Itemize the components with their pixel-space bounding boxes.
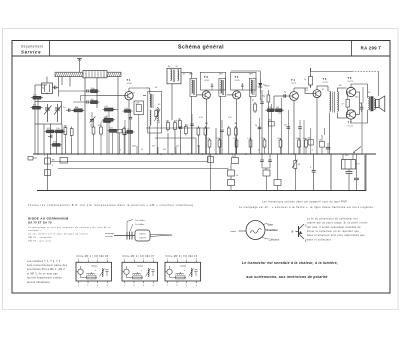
- wire T 3 base: [227, 94, 233, 96]
- bus junction dots: [37, 153, 318, 155]
- resistor R34: [308, 138, 314, 145]
- wire osc down: [171, 84, 173, 120]
- capacitor C8: [282, 94, 285, 97]
- svg-text:DIODE AU GERMANIUM: DIODE AU GERMANIUM: [28, 217, 69, 221]
- svg-text:1k: 1k: [236, 175, 238, 177]
- svg-text:8,2k: 8,2k: [268, 107, 272, 109]
- bias box T1: [134, 101, 144, 115]
- svg-text:T 1: T 1: [127, 78, 131, 82]
- label jack: [52, 160, 55, 162]
- label T5: [323, 77, 329, 84]
- svg-text:7: 7: [186, 259, 187, 261]
- svg-text:NTC: NTC: [355, 97, 360, 99]
- svg-text:2n2: 2n2: [277, 138, 280, 140]
- ferrite rod antenna L1: [55, 72, 121, 76]
- transistor note paragraph: [307, 217, 368, 241]
- wire jog 2: [58, 169, 228, 171]
- wire bar drop 5: [117, 77, 119, 154]
- label T4: [291, 78, 297, 85]
- svg-text:marquage: marquage: [105, 232, 115, 235]
- diode label marquage: [105, 232, 115, 238]
- wire bus right end: [330, 154, 332, 191]
- label 90p: [0, 0, 1, 1]
- svg-text:100n: 100n: [132, 146, 136, 148]
- caution italic line 1: [242, 261, 338, 265]
- antenna mast: [77, 59, 82, 73]
- svg-text:repéré par un point rouge. Si: repéré par un point rouge. Si ce point n…: [307, 222, 368, 225]
- wire T1 collector: [129, 88, 146, 92]
- wire stubs above bus: [210, 149, 307, 154]
- wire mid h: [81, 96, 98, 102]
- svg-text:5k: 5k: [298, 164, 300, 166]
- svg-text:1,5k: 1,5k: [56, 128, 60, 130]
- wire tune 6: [65, 137, 67, 154]
- svg-text:fournis séparément comme: fournis séparément comme: [27, 277, 62, 280]
- wire diode: [231, 71, 262, 100]
- svg-text:T 2: T 2: [204, 75, 208, 79]
- svg-text:T 6: T 6: [348, 76, 352, 80]
- resistor R12: [174, 121, 177, 132]
- capacitor C4: [129, 112, 132, 154]
- wire T 2 base: [196, 94, 202, 96]
- svg-text:1k: 1k: [127, 129, 129, 131]
- wire T1 col right: [143, 95, 146, 97]
- svg-text:Base: Base: [268, 223, 274, 226]
- svg-text:OC45: OC45: [204, 80, 210, 82]
- wire det col b: [270, 104, 272, 154]
- svg-text:OC45: OC45: [234, 80, 240, 82]
- value label grp L: [33, 88, 78, 144]
- svg-text:3: 3: [97, 285, 98, 287]
- header divider right: [351, 41, 353, 57]
- svg-text:ensembles filtres MF 1, MF: ensembles filtres MF 1, MF 2: [27, 268, 65, 271]
- wire T4 collector top: [294, 88, 308, 92]
- wire det col c: [278, 98, 282, 154]
- svg-text:n1: n1: [133, 93, 135, 95]
- negative supply bus: [37, 190, 366, 192]
- transistor case drawing: [231, 221, 266, 240]
- capacitor C23: [360, 103, 364, 112]
- svg-text:82: 82: [105, 117, 107, 119]
- svg-text:o: o: [95, 270, 96, 272]
- transistor T1: [125, 92, 133, 100]
- variable capacitor CV1: [44, 104, 52, 122]
- diode package lead right: [150, 235, 172, 237]
- capacitor C19: [326, 143, 331, 154]
- label r1516: [268, 107, 279, 109]
- wire T1 emitter: [128, 100, 130, 154]
- svg-text:2,2k: 2,2k: [125, 108, 129, 110]
- wire top left: [35, 84, 47, 86]
- header divider left: [49, 41, 51, 57]
- resistor R1: [31, 96, 43, 99]
- resistor R7: [64, 126, 67, 137]
- filter module MF2 box: [122, 255, 158, 287]
- wire ant col 1: [84, 78, 86, 154]
- svg-text:n15: n15: [105, 106, 108, 108]
- svg-text:Les transistors utilisés dans: Les transistors utilisés dans cet appare…: [262, 200, 348, 203]
- electrolytic C11: [310, 154, 316, 191]
- label lower: [208, 155, 238, 177]
- svg-text:3: 3: [143, 285, 144, 287]
- wire MF1 bottom: [149, 126, 151, 154]
- svg-text:8: 8: [196, 259, 197, 261]
- wire MF1 top: [146, 88, 150, 94]
- svg-text:B: B: [292, 230, 294, 234]
- resistor R27: [89, 99, 100, 104]
- resistor R22: [228, 170, 235, 176]
- svg-text:T 3: T 3: [234, 75, 238, 79]
- capacitor C3: [48, 135, 52, 138]
- lower cluster wires: [107, 115, 124, 154]
- capacitor C6: [220, 120, 223, 154]
- volume pot P1: [292, 154, 298, 191]
- wire det col e: [303, 120, 305, 154]
- svg-text:Département: Département: [21, 45, 43, 49]
- MF narrow box 3: [249, 78, 256, 96]
- svg-text:base et émetteur sont plus rap: base et émetteur sont plus rapprochés qu…: [307, 234, 365, 237]
- svg-text:Le transistor est sensible: Le transistor est sensible à la chaleur,…: [242, 261, 338, 265]
- lower cluster resistor Ra: [102, 118, 113, 123]
- svg-text:pièces détachées.: pièces détachées.: [27, 281, 51, 284]
- wire IF3 cap stub: [241, 83, 244, 90]
- scatter labels 1: [133, 66, 253, 106]
- label T 2: [204, 75, 210, 82]
- wire T1 base: [97, 95, 125, 97]
- svg-text:2: 2: [133, 285, 134, 287]
- resistor R11: [167, 121, 170, 132]
- wire tune 2: [43, 124, 45, 154]
- wire IF3 down: [250, 96, 252, 154]
- svg-text:aux surtensions, aux invers: aux surtensions, aux inversions de polar…: [246, 275, 327, 279]
- svg-text:Filtre MF 2 | FO 002 07: Filtre MF 2 | FO 002 07: [123, 255, 155, 258]
- resistor R32: [185, 125, 188, 136]
- svg-text:2k: 2k: [141, 149, 143, 151]
- svg-text:22n: 22n: [176, 146, 179, 148]
- capacitor C14: [87, 89, 88, 92]
- svg-text:S9: S9: [368, 92, 370, 94]
- IF transformer winding 2: [220, 80, 223, 95]
- svg-text:RA 299 T: RA 299 T: [361, 45, 382, 50]
- header text Service: [21, 49, 41, 54]
- lower cluster resistor Rd: [123, 127, 126, 137]
- diode note l1: [28, 226, 111, 229]
- svg-text:8: 8: [107, 259, 108, 261]
- svg-text:2,2k: 2,2k: [33, 95, 37, 97]
- svg-text:OA 70 : vermillon: OA 70 : vermillon: [28, 236, 53, 239]
- resistor R28: [73, 107, 85, 112]
- filter module MF1 box: [76, 255, 112, 287]
- AGC wire: [146, 127, 210, 129]
- label above-bus values: [90, 125, 307, 140]
- wire if link: [215, 128, 217, 154]
- lower cluster resistor Re: [125, 129, 135, 134]
- resistor R13: [254, 102, 257, 113]
- capacitor C5: [179, 127, 182, 128]
- svg-text:470: 470: [98, 125, 101, 127]
- diode note l5: [28, 239, 51, 242]
- wire tune 3: [50, 124, 52, 154]
- wire under T 2: [198, 137, 205, 154]
- svg-text:33k: 33k: [205, 123, 208, 125]
- svg-text:1: 1: [167, 285, 168, 287]
- wire vol in: [210, 154, 212, 191]
- capacitor C9: [260, 154, 263, 168]
- wire clu h2: [73, 101, 87, 103]
- resistor group above bus: [208, 138, 307, 149]
- svg-text:1: 1: [124, 285, 125, 287]
- svg-text:2k2: 2k2: [278, 113, 281, 115]
- wire T5 base: [305, 88, 313, 94]
- capacitor C21: [284, 125, 290, 129]
- wire T 2 emitter: [205, 99, 207, 154]
- diode package body: [135, 230, 150, 241]
- wire clu h1: [59, 90, 87, 92]
- output transformer: [368, 97, 375, 112]
- diode callout 1er chiffre: [127, 219, 145, 231]
- svg-text:tait pas, il serait cependant: tait pas, il serait cependant possible d…: [307, 226, 361, 229]
- svg-text:32: 32: [322, 89, 324, 91]
- resistor under T 2 b: [204, 126, 207, 137]
- resistor R10: [123, 108, 133, 113]
- header separator line: [12, 55, 390, 57]
- svg-text:47: 47: [252, 100, 254, 102]
- wire T6T7 emitters: [356, 92, 362, 115]
- wire r2930: [109, 110, 118, 155]
- svg-text:Service: Service: [21, 49, 41, 54]
- wire bar drop 3: [61, 77, 63, 85]
- lower cluster resistor Rb: [108, 128, 119, 133]
- capacitor C10: [268, 154, 271, 168]
- svg-text:métal: métal: [231, 230, 237, 233]
- wire tune left boundary: [34, 85, 36, 154]
- diode package bands: [127, 232, 132, 240]
- svg-text:4: 4: [196, 285, 197, 287]
- svg-text:Filtre MF 3 | FO 002 10: Filtre MF 3 | FO 002 10: [166, 255, 198, 258]
- svg-text:470: 470: [152, 146, 155, 148]
- wire IF2 cap stub: [211, 83, 214, 90]
- title Schema general: [178, 45, 224, 51]
- MF1 filter winding: [150, 94, 153, 125]
- svg-text:S7: S7: [183, 74, 185, 76]
- svg-text:c: c: [214, 150, 215, 152]
- svg-text:Schéma général: Schéma général: [178, 45, 224, 51]
- svg-text:cathode: cathode: [105, 235, 113, 238]
- resistor R21: [232, 158, 239, 164]
- resistor R8: [70, 127, 73, 138]
- switch S1 on-off: [353, 147, 361, 154]
- resistor group left col: [92, 125, 102, 136]
- MF narrow box 2: [219, 78, 226, 96]
- wire jog 1: [51, 157, 209, 162]
- svg-text:cathode +.: cathode +.: [28, 229, 43, 232]
- resistor R31: [179, 119, 182, 130]
- svg-text:T 5: T 5: [323, 77, 327, 81]
- capacitor C2: [66, 109, 73, 112]
- resistor R18 bias: [342, 100, 350, 108]
- svg-text:Le 1er chiffre est le plus élo: Le 1er chiffre est le plus éloigné du ce…: [28, 233, 89, 236]
- wire mf2in: [181, 72, 192, 154]
- svg-text:47n: 47n: [233, 138, 236, 140]
- switch section box b: [45, 170, 51, 176]
- svg-text:Toutes les commutations B.P. o: Toutes les commutations B.P. ont été rep…: [28, 204, 195, 207]
- resistor R3: [72, 109, 84, 112]
- svg-text:OC74: OC74: [348, 81, 354, 83]
- svg-text:6,8k: 6,8k: [296, 138, 300, 140]
- scatter labels 2: [199, 85, 370, 125]
- svg-text:Filtre MF 1 | FO 002 05: Filtre MF 1 | FO 002 05: [77, 255, 109, 258]
- svg-text:base et collecteur.: base et collecteur.: [307, 238, 332, 241]
- resistor R14: [267, 93, 270, 104]
- svg-text:b: b: [120, 150, 121, 152]
- svg-text:27k: 27k: [75, 107, 78, 109]
- svg-text:120p: 120p: [91, 88, 95, 90]
- svg-text:4: 4: [107, 285, 108, 287]
- svg-text:470: 470: [185, 125, 188, 127]
- label S4: [263, 85, 266, 87]
- wire bias: [348, 92, 362, 154]
- svg-text:3: 3: [186, 285, 187, 287]
- svg-text:10k: 10k: [268, 120, 271, 122]
- wire under T 3: [229, 137, 236, 154]
- wire c910: [262, 168, 270, 170]
- resistor R26: [89, 88, 100, 93]
- transistor symbol BCE: [292, 223, 307, 242]
- IF transformer winding 3: [251, 80, 254, 95]
- resistor R33: [268, 120, 274, 126]
- svg-text:4,7k: 4,7k: [199, 117, 203, 119]
- capacitor C7: [260, 90, 263, 154]
- svg-text:56: 56: [319, 140, 321, 142]
- svg-text:situer le collecteur où se rep: situer le collecteur où se repérant que: [307, 230, 359, 233]
- capacitor C22: [298, 120, 302, 154]
- resistor R20: [208, 157, 214, 163]
- svg-text:2e chiffre: 2e chiffre: [135, 223, 145, 226]
- label T7: [348, 120, 354, 127]
- wire bar drop 1: [58, 77, 60, 97]
- diode note l3: [28, 233, 89, 236]
- svg-text:OA 79 : gris-vert: OA 79 : gris-vert: [28, 239, 51, 242]
- transistor case callouts: [262, 223, 279, 241]
- transistor T4: [290, 92, 299, 101]
- resistor R16: [274, 109, 285, 112]
- resistor R15: [266, 109, 277, 112]
- resistor R35: [319, 140, 325, 147]
- svg-text:1k: 1k: [178, 119, 180, 121]
- svg-text:Collecteur: Collecteur: [269, 239, 280, 242]
- svg-text:OC44: OC44: [127, 83, 133, 85]
- svg-text:e: e: [312, 150, 313, 152]
- svg-text:82k: 82k: [33, 105, 36, 107]
- transistor T 2: [202, 91, 210, 99]
- svg-text:5: 5: [78, 259, 79, 261]
- resistor R17: [304, 75, 313, 88]
- svg-text:OA 70 ET OA 79: OA 70 ET OA 79: [28, 221, 52, 225]
- wire IF2 down: [219, 96, 221, 154]
- svg-text:MF2: MF2: [219, 74, 223, 76]
- svg-text:Le marquage est dit : « émette: Le marquage est dit : « émetteur à la fl…: [239, 206, 374, 209]
- diode note l4: [28, 236, 53, 239]
- svg-text:3n9: 3n9: [91, 99, 94, 101]
- doc number RA 299 T: [361, 45, 382, 50]
- svg-text:1,2k: 1,2k: [247, 138, 251, 140]
- label T6: [348, 76, 354, 83]
- svg-text:5,6k: 5,6k: [136, 103, 140, 105]
- svg-text:4: 4: [153, 285, 154, 287]
- svg-text:0,4: 0,4: [305, 90, 308, 92]
- trimmer capacitor C1: [52, 86, 59, 89]
- wire bar drop 2: [69, 77, 71, 87]
- wire T5 collector: [317, 86, 328, 92]
- label vol: [298, 164, 300, 166]
- wire ant col 2: [96, 78, 98, 108]
- svg-text:15k: 15k: [276, 107, 279, 109]
- svg-text:10n: 10n: [284, 125, 287, 127]
- resistor R19: [60, 158, 68, 164]
- resistor R2: [31, 106, 43, 109]
- wire fb v: [362, 87, 364, 103]
- svg-text:6: 6: [134, 259, 135, 261]
- svg-text:OA 79: OA 79: [139, 237, 146, 240]
- wire det col a: [259, 118, 261, 154]
- wire det col f: [310, 128, 312, 154]
- svg-text:100: 100: [216, 138, 219, 140]
- svg-text:680: 680: [308, 138, 311, 140]
- resistor under T 3 a: [227, 126, 230, 137]
- note PNP line 2: [239, 206, 374, 209]
- diode package lead left: [114, 235, 135, 237]
- svg-text:T 4: T 4: [291, 78, 295, 82]
- svg-text:S3: S3: [158, 104, 160, 106]
- wire tune 5: [61, 124, 63, 154]
- wire T 3 emitter: [236, 99, 238, 154]
- battery B1 9V: [342, 160, 361, 170]
- heading OA70: [28, 221, 52, 225]
- wire jack v: [47, 154, 49, 191]
- svg-text:MF3: MF3: [249, 74, 253, 76]
- svg-text:6k8: 6k8: [197, 146, 200, 148]
- trimmer capacitor C16: [90, 112, 96, 128]
- capacitor C15: [87, 100, 88, 103]
- note switches line: [28, 204, 195, 207]
- svg-text:50: 50: [232, 156, 234, 158]
- svg-text:Les modules T 1, T 2, T 3: Les modules T 1, T 2, T 3: [27, 261, 61, 263]
- MF1 module box: [148, 92, 162, 134]
- IF module box 3: [231, 72, 256, 90]
- svg-text:47: 47: [342, 104, 344, 106]
- svg-text:S8: S8: [339, 85, 341, 87]
- earphone jack terminal: [28, 157, 37, 161]
- border frame: [12, 41, 390, 294]
- svg-text:18k: 18k: [234, 123, 237, 125]
- wire osc grid: [168, 130, 181, 155]
- svg-text:8,2k: 8,2k: [110, 128, 114, 130]
- svg-text:S4: S4: [168, 66, 170, 68]
- scatter labels 3: [44, 150, 348, 168]
- resistor R23: [228, 180, 235, 186]
- svg-text:1k: 1k: [304, 79, 306, 81]
- diode note l2: [28, 229, 43, 232]
- svg-text:1: 1: [52, 165, 53, 167]
- wire T4 emitter: [293, 100, 295, 154]
- electrolytic C12: [346, 169, 353, 191]
- wire tune 8: [77, 113, 79, 155]
- wire right drop: [365, 154, 367, 191]
- resistor R29: [103, 106, 116, 111]
- svg-text:4,7: 4,7: [206, 138, 209, 140]
- caution italic line 2: [246, 275, 327, 279]
- svg-text:S5: S5: [176, 66, 178, 68]
